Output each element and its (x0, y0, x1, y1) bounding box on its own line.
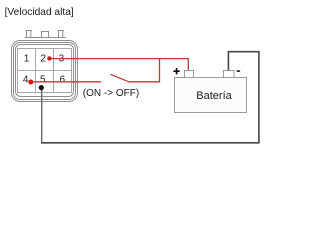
svg-text:4: 4 (23, 75, 29, 86)
svg-text:Batería: Batería (196, 90, 232, 102)
svg-text:6: 6 (60, 75, 66, 86)
svg-text:5: 5 (40, 75, 46, 86)
svg-text:(ON -> OFF): (ON -> OFF) (83, 88, 139, 99)
svg-text:1: 1 (24, 54, 30, 65)
svg-text:[Velocidad alta]: [Velocidad alta] (5, 7, 74, 18)
svg-text:2: 2 (40, 54, 46, 65)
